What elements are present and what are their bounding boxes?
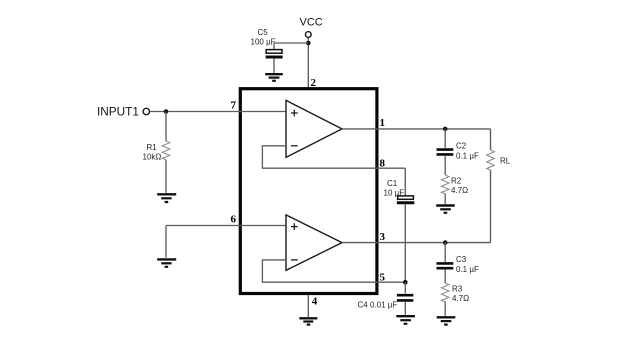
svg-text:10 µF: 10 µF [384, 189, 405, 198]
wire U1B output to pin 3 [342, 242, 491, 244]
wire RL to pin3 net [490, 170, 492, 243]
node VCC junction [306, 41, 311, 46]
C5 value label [251, 28, 276, 47]
C2 value label [456, 141, 479, 160]
svg-text:C4 0.01 µF: C4 0.01 µF [358, 301, 398, 310]
C1 value label [384, 179, 405, 198]
svg-text:4.7Ω: 4.7Ω [452, 294, 469, 303]
svg-text:1: 1 [380, 117, 386, 129]
resistor RL [487, 150, 495, 170]
svg-text:6: 6 [231, 214, 237, 226]
wire U1A output to pin 1 [342, 128, 491, 130]
svg-text:0.1 µF: 0.1 µF [456, 265, 479, 274]
node pin5/C1/C4 junction [403, 280, 408, 285]
capacitor C5 [266, 43, 283, 73]
R1 value label [143, 143, 162, 162]
svg-text:R1: R1 [147, 143, 158, 152]
C3 value label [456, 255, 479, 274]
wire pin 4 to ground [307, 295, 309, 317]
IC U1 body [240, 89, 377, 294]
wire pin6 down to ground [165, 226, 167, 258]
svg-text:C5: C5 [258, 28, 269, 37]
node pin3/C3 junction [443, 240, 448, 245]
ground (C5) [265, 74, 283, 81]
svg-text:R2: R2 [451, 176, 462, 185]
svg-text:4: 4 [312, 296, 318, 308]
capacitor C2 [437, 129, 454, 175]
wire INPUT1 to pin 7 (+ input op-amp U1A) [150, 111, 286, 113]
svg-text:INPUT1: INPUT1 [97, 105, 139, 119]
VCC terminal [305, 32, 311, 38]
svg-text:3: 3 [380, 231, 386, 243]
svg-text:VCC: VCC [300, 17, 323, 29]
op-amp U1A [286, 100, 342, 157]
R3 value label [452, 285, 469, 304]
resistor R2 [441, 175, 449, 204]
R2 value label [451, 176, 468, 195]
resistor R1 [162, 112, 170, 193]
svg-text:0.1 µF: 0.1 µF [456, 151, 479, 160]
ground (pin 4) [299, 318, 317, 324]
wire VCC to C5 [274, 42, 308, 44]
wire U1B feedback to pin 5 [262, 260, 405, 282]
svg-text:10kΩ: 10kΩ [143, 152, 162, 161]
wire pin 6 to + input op-amp U1B [166, 225, 286, 227]
svg-text:4.7Ω: 4.7Ω [451, 186, 468, 195]
ground (R3) [437, 317, 456, 324]
node input junction [164, 109, 169, 114]
ground (pin 6) [157, 259, 176, 266]
svg-text:C3: C3 [456, 255, 467, 264]
svg-text:5: 5 [380, 271, 386, 283]
svg-text:R3: R3 [452, 285, 463, 294]
svg-text:100 µF: 100 µF [251, 38, 276, 47]
capacitor C4 [397, 282, 413, 315]
svg-text:8: 8 [380, 157, 386, 169]
ground (R1) [157, 194, 176, 202]
svg-text:RL: RL [500, 157, 511, 166]
resistor R3 [441, 283, 449, 316]
svg-text:C2: C2 [456, 141, 467, 150]
node pin1/C2 junction [443, 127, 448, 132]
ground (R2) [436, 206, 455, 213]
INPUT1 terminal [143, 108, 149, 114]
capacitor C1 [397, 168, 414, 282]
svg-text:7: 7 [231, 100, 237, 112]
wire VCC terminal to pin 2 [307, 38, 309, 88]
ground (C4) [396, 316, 415, 324]
op-amp U1B [286, 215, 342, 271]
wire U1A feedback to pin 8 [262, 146, 405, 168]
wire pin1 corner to RL [490, 129, 492, 150]
svg-text:C1: C1 [387, 179, 398, 188]
capacitor C3 [437, 243, 454, 283]
